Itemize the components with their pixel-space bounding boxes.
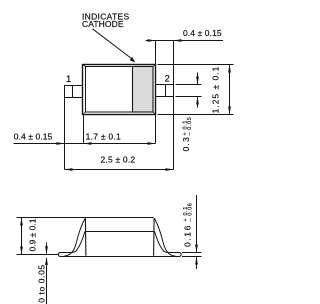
svg-text:1.25 ± 0.1: 1.25 ± 0.1	[211, 66, 221, 114]
svg-text:0.9 ± 0.1: 0.9 ± 0.1	[28, 218, 38, 251]
cathode band	[133, 67, 154, 113]
dimension 0.4 +/-0.15 (bottom left, pin 1 lead length)	[14, 98, 156, 170]
svg-text:0 to 0.05: 0 to 0.05	[37, 264, 47, 302]
dimension 1.25 +/-0.1 (body width, right side)	[158, 65, 234, 115]
dimension 0.16 +0.1/-0.06 (lead thickness)	[182, 195, 202, 269]
package body inner outline (top view)	[86, 67, 154, 113]
package body outer outline (top view)	[83, 65, 156, 115]
pin 2 lead bend line	[165, 85, 167, 97]
dimension 2.5 +/-0.2 (overall length)	[65, 97, 174, 171]
left foot top	[60, 252, 71, 254]
dimension 0 to 0.05 (standoff)	[45, 243, 48, 304]
leadframe line through body	[85, 231, 155, 233]
svg-text:– 0.05: – 0.05	[187, 117, 193, 136]
dimension 0.3 +0.1/-0.05 (pin 2 lead width)	[176, 73, 202, 108]
side view seating / bottom line	[60, 256, 179, 258]
pin 1 lead bend line	[72, 86, 74, 98]
svg-text:0.3: 0.3	[181, 136, 191, 151]
dimension 1.7 +/-0.1 (body length)	[148, 115, 156, 145]
body corner bevels	[83, 65, 86, 67]
svg-text:2.5 ± 0.2: 2.5 ± 0.2	[100, 154, 135, 164]
pin 2 lead (top view)	[156, 85, 174, 97]
svg-text:1: 1	[66, 74, 71, 85]
right foot tip	[179, 253, 182, 257]
pin 1 lead (top view)	[65, 85, 174, 98]
side view body top	[60, 218, 179, 257]
side view left lead	[58, 219, 85, 257]
svg-text:0.4 ± 0.15: 0.4 ± 0.15	[183, 28, 222, 38]
right foot top	[169, 252, 180, 254]
side view body right face	[153, 218, 156, 256]
dimension 0.9 +/-0.1 (overall height)	[17, 218, 87, 255]
svg-text:0.16: 0.16	[182, 224, 192, 247]
svg-text:CATHODE: CATHODE	[82, 19, 124, 29]
dimension 0.4 +/-0.15 (top right, pin 2 lead length)	[146, 39, 224, 84]
cathode leader arrow	[93, 29, 136, 63]
svg-text:1.7 ± 0.1: 1.7 ± 0.1	[86, 132, 121, 142]
svg-text:0.4 ± 0.15: 0.4 ± 0.15	[14, 132, 53, 142]
side view right lead	[155, 219, 182, 257]
side view body left face	[84, 218, 87, 256]
svg-text:– 0.06: – 0.06	[188, 203, 194, 222]
left foot tip	[58, 253, 61, 257]
svg-text:2: 2	[165, 74, 170, 85]
